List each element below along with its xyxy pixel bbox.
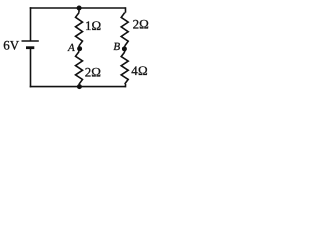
battery V1 short plate	[26, 46, 34, 49]
resistor R3 2ohm right	[121, 13, 128, 46]
svg-text:6V: 6V	[3, 37, 20, 52]
wire bottom	[30, 86, 126, 88]
svg-text:2Ω: 2Ω	[133, 17, 149, 32]
node junction top	[77, 6, 82, 11]
node junction bottom	[77, 84, 82, 89]
node A	[77, 46, 82, 51]
svg-text:2Ω: 2Ω	[85, 64, 101, 79]
resistor R2 2ohm middle	[76, 52, 83, 85]
wire node B stub	[124, 46, 126, 52]
wire top	[30, 7, 126, 9]
svg-text:A: A	[67, 42, 75, 54]
wire left lower	[30, 49, 32, 88]
resistor R4 4ohm	[121, 52, 128, 84]
wire node A stub	[78, 46, 80, 52]
wire middle stub top	[78, 8, 80, 13]
svg-text:1Ω: 1Ω	[85, 18, 101, 33]
svg-text:B: B	[113, 41, 120, 53]
svg-text:4Ω: 4Ω	[131, 63, 148, 78]
battery V1 long plate	[22, 40, 39, 42]
node B	[122, 46, 127, 51]
wire right stub top	[124, 7, 127, 12]
wire left upper	[30, 7, 32, 41]
resistor R1 1ohm	[76, 13, 83, 46]
wire middle stub bottom	[78, 84, 80, 86]
wire right stub bottom	[124, 84, 127, 87]
